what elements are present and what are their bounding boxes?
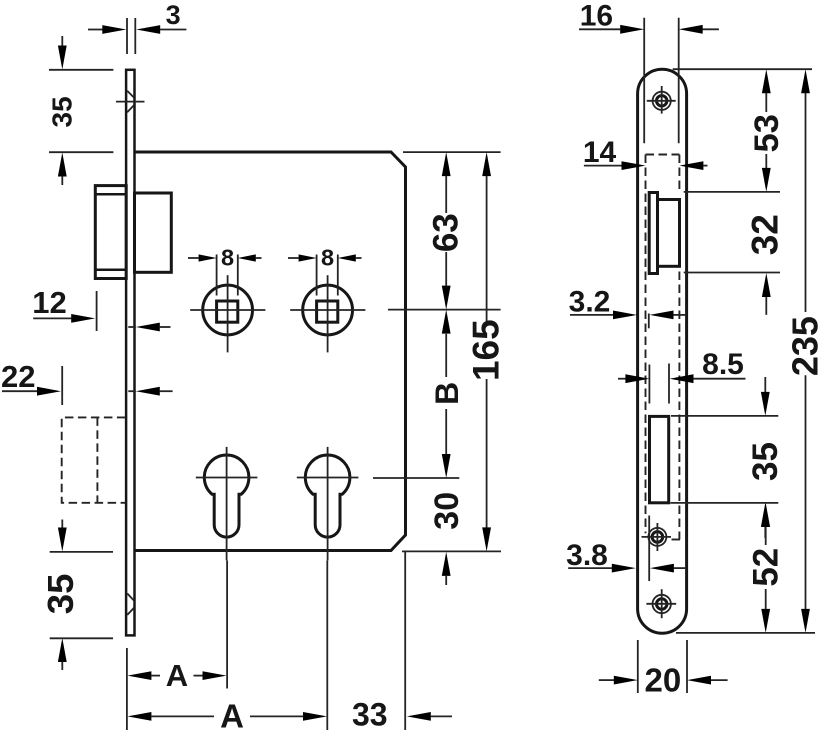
extension line plate top [673,68,812,70]
cylinder right centerline vertical [327,447,329,561]
extension line slot bottom / 52 top [670,502,778,504]
dim 8 right: arrows [288,257,299,259]
cylinder hole right (euro profile) [305,455,350,537]
top screw hole crosshair [647,100,676,102]
dim 3: right arrow [136,25,160,34]
dim 35 right: outside down arrow [764,377,766,392]
dim A row2 [127,712,151,721]
middle adjustment hole: outer circle [648,528,666,546]
dim 8.5: left outside arrow [618,378,626,380]
dim 35 bottom-left: extension line top [50,551,113,553]
dim 35 top-left: extension line bottom [49,151,113,153]
dim 8.5: right outside arrow [670,374,694,383]
dim 8 left: arrows [188,257,199,259]
cylinder right centerline horizontal [297,477,359,479]
dim 3.2: left-pointing arrow [650,311,674,320]
dim 52: dimension line with arrows [761,503,770,527]
svg-text:8: 8 [321,245,334,271]
svg-text:16: 16 [580,0,613,32]
dim 35 right: outside up arrow [761,503,770,527]
top screw hole: inner circle bold [657,96,667,106]
svg-text:35: 35 [47,96,78,127]
dim 3.2: right-pointing arrow at plate edge [570,314,613,316]
extension line plate bottom [676,632,815,634]
bottom screw hole crosshair [646,603,676,605]
latch bolt body (front view) [658,200,680,267]
extension line follower centerline [388,309,501,311]
middle hole crosshair [642,536,672,538]
break mark bottom diagonal 2 [127,608,134,615]
dim 35 top-left: up arrow [58,153,67,177]
top screw hole: outer circle [653,92,671,110]
svg-text:33: 33 [352,697,388,730]
svg-text:12: 12 [32,285,66,320]
extension line latch bottom [684,272,780,274]
break mark top diagonal 2 [127,105,134,112]
lock case body outline [135,152,406,551]
dim 53: dimension line with arrows [762,69,771,93]
break mark bottom diagonal 1 [127,594,134,601]
extension line cylinder centerline [373,477,459,479]
dim B: dimension line with arrows [442,310,451,334]
bottom screw hole: inner circle bold [657,599,667,609]
svg-text:35: 35 [746,442,785,481]
extension line cylinder axis (down) [326,561,328,730]
dim 16: extension lines [643,18,645,144]
faceplate break mark top: horizontal line [116,101,145,103]
follower hole left: circle [203,285,253,335]
dim 35 top-left: down arrow [61,36,63,46]
follower hole left: square spindle [217,301,238,322]
svg-text:B: B [429,382,465,405]
bottom screw hole: outer circle [653,595,671,613]
svg-text:22: 22 [1,359,35,394]
svg-text:235: 235 [785,316,820,376]
extension line faceplate left (down) [126,648,128,730]
svg-text:35: 35 [40,574,81,615]
dim 22: tick at deadbolt face [61,366,63,405]
dim 63: dimension line with arrows [442,152,451,176]
dim 8 right: extension lines [316,255,318,296]
svg-text:53: 53 [748,114,786,152]
dim 3.8: left-pointing arrow [650,564,674,573]
follower left centerline vertical [227,275,229,352]
dashed latch channel: right dashed line [678,155,680,540]
extension line latch top [684,191,780,193]
svg-text:30: 30 [428,492,466,530]
svg-text:52: 52 [747,548,786,587]
dim 35 bottom-left: down arrow [61,520,63,529]
dim 35 top-left: extension line top [49,69,113,71]
dim 35 bottom-left: extension line bottom [50,637,113,639]
svg-text:14: 14 [583,136,617,169]
dim 3.8: right-pointing arrow at plate edge [568,567,612,569]
svg-text:63: 63 [426,213,465,252]
dim 3: left arrow [88,29,103,31]
dim 165: dimension line with arrows [482,152,491,176]
middle adjustment hole: inner circle bold [652,532,663,543]
latch body inside case [135,193,172,272]
extension line case right edge (down) [404,552,406,730]
faceplate (front view, stadium shape) [638,69,687,633]
svg-text:3: 3 [166,0,181,30]
follower right centerline horizontal [290,309,365,311]
cylinder left centerline horizontal [196,477,258,479]
dim 8.5: extension ticks at slot edges [648,365,650,404]
latch head lip line top [95,193,126,196]
svg-text:A: A [220,697,244,730]
dim 16: arrows [579,28,620,30]
dim 12: tick at latch face [96,291,98,331]
cylinder hole left (euro profile) [204,455,249,537]
dim 12: left-pointing arrow at faceplate [128,326,136,328]
svg-text:20: 20 [645,662,682,699]
extension line follower axis (down) [226,561,228,689]
follower hole right: circle [303,285,353,335]
dim 3.2: extension tick at slot edge [648,314,650,329]
svg-text:165: 165 [465,319,506,381]
latch underlay [648,191,681,268]
dim 235: dimension line with arrows [801,69,810,93]
latch bolt front face (narrow bold strip) [649,193,657,274]
break mark top diagonal 1 [127,91,134,98]
follower left centerline horizontal [190,309,265,311]
dim 20: extension lines [637,640,639,693]
dim 14: arrows [584,165,622,167]
svg-text:A: A [166,658,188,693]
svg-text:8: 8 [221,245,234,271]
faceplate (side view, 3 mm strip) [126,70,134,636]
deadbolt slot (lower rectangle) [650,416,669,502]
dim 8 left: extension lines [216,255,218,296]
svg-text:32: 32 [745,214,786,255]
dim 22: left-pointing arrow at faceplate [128,390,136,392]
dim 20: arrows [599,679,614,681]
svg-text:8.5: 8.5 [702,348,744,381]
cylinder left centerline vertical [226,447,228,561]
latch head lip line bottom [95,269,126,272]
follower right centerline vertical [327,275,329,352]
dashed latch channel: bottom-right dash [672,539,681,541]
follower hole right: square spindle [317,301,338,322]
dim 3.8: extension line at slot edge [648,516,650,582]
dim 12: right-pointing arrow [33,317,71,319]
dim 35 bottom-left: up arrow [58,638,67,662]
svg-text:3.2: 3.2 [569,286,611,319]
dim A row1 [127,671,151,680]
extension line top right (case top) [403,151,501,153]
dashed deadbolt (thrown position) [62,417,126,502]
dashed latch channel: top dashed line [646,154,680,156]
extension line slot top [671,415,778,417]
dim 22: right-pointing arrow [2,390,38,392]
extension line case bottom [402,550,501,552]
latch bolt head (protruding left of faceplate) [95,186,126,279]
dim 3 (faceplate thickness): extension ticks [126,18,128,54]
dashed latch channel: left dashed line [645,155,647,534]
